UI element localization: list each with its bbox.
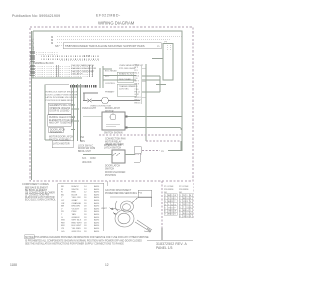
svg-text:12: 12 <box>171 204 173 206</box>
svg-text:CONTROL: CONTROL <box>105 83 116 85</box>
svg-text:SEE THE INSTALLATION INSTRUCTI: SEE THE INSTALLATION INSTRUCTIONS FOR PO… <box>25 243 124 246</box>
svg-text:WIRING DIAGRAM: WIRING DIAGRAM <box>98 21 135 26</box>
svg-text:COMPONENT CODES: COMPONENT CODES <box>22 182 49 186</box>
svg-text:PANEL 1/3: PANEL 1/3 <box>156 246 173 250</box>
svg-text:RED WHT: RED WHT <box>72 222 83 224</box>
svg-text:AWG: AWG <box>94 224 99 227</box>
svg-text:20A 120V CONV MOTOR: 20A 120V CONV MOTOR <box>71 67 97 70</box>
svg-text:IS PROHIBITED ALL COMPONENTS: IS PROHIBITED ALL COMPONENTS SHOWN IN NO… <box>25 239 142 242</box>
svg-text:OR: OR <box>61 203 65 205</box>
svg-text:GG: GG <box>61 231 65 233</box>
svg-text:1: 1 <box>180 195 181 197</box>
svg-text:BOARD K1 K2: BOARD K1 K2 <box>119 72 133 75</box>
svg-text:3: 3 <box>180 201 181 203</box>
svg-text:5: 5 <box>180 207 181 209</box>
svg-text:AWG: AWG <box>94 227 99 230</box>
svg-text:AWG: AWG <box>94 207 99 210</box>
svg-text:YELLOW: YELLOW <box>72 197 82 199</box>
svg-text:SWITCH ASSEMBLY: SWITCH ASSEMBLY <box>49 138 71 141</box>
svg-text:M: M <box>51 41 53 45</box>
svg-text:10: 10 <box>186 198 188 200</box>
svg-text:P1 CONN: P1 CONN <box>164 186 174 188</box>
svg-text:1: 1 <box>165 195 166 197</box>
svg-text:AWG: AWG <box>94 210 99 213</box>
svg-text:SWITCH SHOWN: SWITCH SHOWN <box>104 133 123 135</box>
svg-text:WR 13: WR 13 <box>134 97 141 99</box>
svg-text:Publication No: 5995421909: Publication No: 5995421909 <box>12 14 60 18</box>
svg-text:AWG: AWG <box>94 205 99 208</box>
svg-text:GY: GY <box>61 200 65 202</box>
svg-text:7: 7 <box>165 214 166 216</box>
svg-text:12: 12 <box>186 204 188 206</box>
svg-text:LOCK SW N.C.: LOCK SW N.C. <box>78 146 94 148</box>
svg-text:10A LATCH: 10A LATCH <box>71 73 83 76</box>
svg-text:BW 15: BW 15 <box>134 102 141 104</box>
svg-text:15A 120V OVEN LIGHT: 15A 120V OVEN LIGHT <box>71 70 95 73</box>
svg-text:AWG: AWG <box>94 202 99 205</box>
svg-text:BROWN: BROWN <box>72 206 81 208</box>
svg-text:WHITE: WHITE <box>72 189 80 191</box>
svg-text:N.O.: N.O. <box>82 158 87 160</box>
svg-text:MOTOR DOOR LATCH: MOTOR DOOR LATCH <box>49 136 73 139</box>
svg-text:LATCH IN NORMAL UNLOCKED: LATCH IN NORMAL UNLOCKED <box>46 96 77 99</box>
svg-text:14: 14 <box>171 211 173 213</box>
svg-text:BLUE: BLUE <box>72 194 78 196</box>
svg-text:AWG: AWG <box>94 199 99 202</box>
svg-text:W: W <box>183 195 185 197</box>
svg-text:4: 4 <box>165 204 166 206</box>
svg-text:9: 9 <box>171 195 172 197</box>
svg-text:PRIMARY: PRIMARY <box>105 90 115 93</box>
svg-text:TERMINAL BLOCK: TERMINAL BLOCK <box>33 62 54 65</box>
svg-text:BR: BR <box>61 206 64 208</box>
svg-text:13: 13 <box>186 207 188 209</box>
svg-text:15A: 15A <box>80 136 85 139</box>
svg-text:DOOR SW COM: DOOR SW COM <box>78 148 95 150</box>
svg-text:PK 11: PK 11 <box>134 92 140 94</box>
svg-text:11: 11 <box>186 201 188 203</box>
svg-text:YR: YR <box>61 228 64 230</box>
svg-text:ELEMENTS CYCLE ON: ELEMENTS CYCLE ON <box>49 120 74 122</box>
svg-text:8: 8 <box>180 216 181 218</box>
svg-text:AWG: AWG <box>94 188 99 191</box>
svg-text:6: 6 <box>165 211 166 213</box>
svg-text:BLACK: BLACK <box>72 185 80 188</box>
svg-text:VENT: VENT <box>101 208 107 210</box>
svg-text:DOOR LATCH: DOOR LATCH <box>50 128 65 131</box>
svg-text:DURING CLEAN CYCLE: DURING CLEAN CYCLE <box>49 116 75 119</box>
svg-text:UNLOCK: UNLOCK <box>82 162 92 164</box>
svg-text:3: 3 <box>165 201 166 203</box>
svg-text:PIN WIRE: PIN WIRE <box>164 189 174 191</box>
svg-text:AND OFF TOGETHER: AND OFF TOGETHER <box>49 122 73 125</box>
svg-text:7: 7 <box>180 213 181 215</box>
svg-text:MOTOR RELAY: MOTOR RELAY <box>105 140 122 143</box>
svg-text:12: 12 <box>105 263 109 267</box>
svg-text:AWG: AWG <box>94 219 99 222</box>
svg-text:6: 6 <box>180 210 181 212</box>
svg-text:2: 2 <box>165 198 166 200</box>
svg-text:NC: NC <box>55 44 59 48</box>
svg-text:PINK: PINK <box>72 211 78 213</box>
svg-text:10: 10 <box>171 198 173 200</box>
svg-text:LATCH SWITCH: LATCH SWITCH <box>104 147 121 150</box>
svg-text:BRN: BRN <box>80 141 85 143</box>
svg-text:BROIL UNIT: BROIL UNIT <box>78 151 91 153</box>
svg-text:AWG: AWG <box>94 216 99 219</box>
svg-text:13: 13 <box>171 207 173 209</box>
svg-text:POWER BEFORE SERVICING: POWER BEFORE SERVICING <box>105 193 137 195</box>
svg-text:NOTICE THIS WIRING DIAGRAM PR: NOTICE THIS WIRING DIAGRAM PROVIDES INFO… <box>25 236 149 239</box>
svg-text:WB: WB <box>61 220 65 222</box>
svg-text:OPERATE UNLESS: OPERATE UNLESS <box>50 107 71 110</box>
svg-text:ELEMENTS WILL NOT: ELEMENTS WILL NOT <box>50 105 74 107</box>
svg-text:120V SEC: 120V SEC <box>119 89 129 91</box>
svg-text:OVEN SENSOR CIRCUIT: OVEN SENSOR CIRCUIT <box>119 65 144 67</box>
svg-text:PIN WIRE: PIN WIRE <box>179 189 189 191</box>
svg-text:ORANGE: ORANGE <box>72 202 82 205</box>
svg-text:POSITION: POSITION <box>105 175 116 177</box>
svg-text:WHT BLK: WHT BLK <box>72 220 82 222</box>
svg-text:DOOR CLOSED POSITION WITH: DOOR CLOSED POSITION WITH <box>46 94 78 96</box>
svg-text:W: W <box>174 211 176 213</box>
svg-text:LATCH MOTOR: LATCH MOTOR <box>53 143 70 146</box>
svg-text:CAUTION DISCONNECT: CAUTION DISCONNECT <box>105 189 132 192</box>
svg-text:EOC ELEC OVEN CONTROL: EOC ELEC OVEN CONTROL <box>25 200 56 202</box>
svg-text:L1 30A: L1 30A <box>83 55 90 58</box>
svg-text:15: 15 <box>171 214 173 216</box>
svg-text:BU: BU <box>61 194 64 196</box>
svg-text:COM: COM <box>90 158 95 160</box>
svg-text:5: 5 <box>165 207 166 209</box>
svg-text:RTD 1080 OHMS: RTD 1080 OHMS <box>119 68 136 70</box>
svg-text:VSR GROUNDED THROUGH RE MOUNTE: VSR GROUNDED THROUGH RE MOUNTED SUPPORT … <box>65 44 145 48</box>
svg-text:AWG: AWG <box>94 213 99 216</box>
svg-text:GRN YEL: GRN YEL <box>72 231 82 233</box>
svg-text:AWG: AWG <box>94 196 99 199</box>
svg-text:G: G <box>61 217 63 219</box>
svg-text:INTERLOCK SWITCH SHOWN IN: INTERLOCK SWITCH SHOWN IN <box>46 92 78 94</box>
svg-text:AWG: AWG <box>94 221 99 224</box>
svg-text:SWITCH: SWITCH <box>105 168 114 170</box>
svg-text:YEL RED: YEL RED <box>72 228 82 230</box>
svg-text:INTERLOCK SW: INTERLOCK SW <box>104 145 122 147</box>
svg-text:DOOR UNLOCKED: DOOR UNLOCKED <box>105 172 126 174</box>
svg-text:4: 4 <box>180 204 181 206</box>
svg-text:W: W <box>174 195 176 197</box>
svg-text:W: W <box>190 213 192 215</box>
svg-text:16: 16 <box>186 216 188 218</box>
svg-text:15: 15 <box>186 213 188 215</box>
svg-text:1188: 1188 <box>10 263 17 267</box>
svg-text:GRAY: GRAY <box>72 199 79 202</box>
svg-text:EOC RELAY: EOC RELAY <box>105 70 117 73</box>
svg-text:N.O.: N.O. <box>105 76 110 78</box>
svg-text:BLK WHT: BLK WHT <box>72 225 82 227</box>
svg-text:POSITION FOR BAKE BROIL: POSITION FOR BAKE BROIL <box>46 99 75 102</box>
svg-text:VIOLET: VIOLET <box>72 208 80 210</box>
svg-text:SOLENOID: SOLENOID <box>50 132 62 134</box>
svg-text:GREEN: GREEN <box>72 217 80 219</box>
svg-text:TRANSFORMER: TRANSFORMER <box>119 85 136 88</box>
svg-text:AWG: AWG <box>94 191 99 194</box>
svg-text:TAN: TAN <box>72 213 77 216</box>
svg-text:CONVECTION FAN: CONVECTION FAN <box>105 138 126 141</box>
svg-text:P2 CONN: P2 CONN <box>179 186 189 188</box>
svg-text:RED: RED <box>72 192 77 194</box>
svg-text:AWG: AWG <box>94 185 99 188</box>
svg-text:AWG: AWG <box>94 230 99 233</box>
svg-text:DOOR IS LOCKED: DOOR IS LOCKED <box>50 111 70 113</box>
svg-text:9: 9 <box>186 195 187 197</box>
svg-text:DOOR LATCH: DOOR LATCH <box>105 107 120 110</box>
svg-text:15A 240V BAKE BROIL: 15A 240V BAKE BROIL <box>71 64 95 67</box>
svg-text:11: 11 <box>171 201 173 203</box>
svg-text:2: 2 <box>180 198 181 200</box>
svg-text:AWG: AWG <box>94 193 99 196</box>
svg-text:DOOR LATCH: DOOR LATCH <box>105 165 120 168</box>
svg-text:DLB CLEAN: DLB CLEAN <box>119 78 131 81</box>
svg-text:OVEN LIGHT: OVEN LIGHT <box>82 108 97 110</box>
svg-text:EF022MBD-: EF022MBD- <box>96 14 121 18</box>
svg-text:14: 14 <box>186 210 188 212</box>
